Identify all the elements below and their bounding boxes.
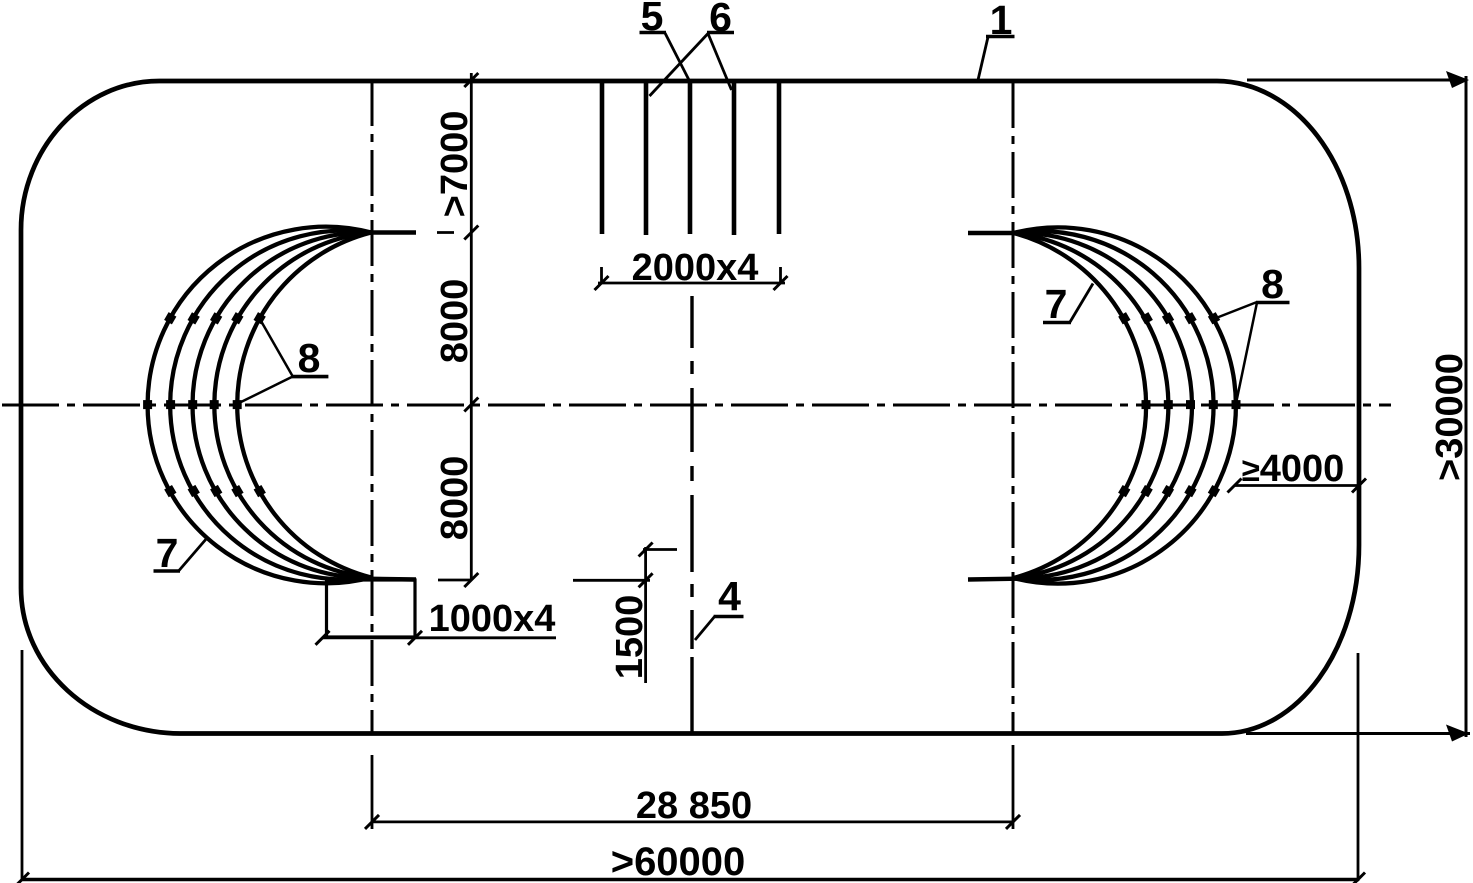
svg-text:7: 7: [1045, 281, 1068, 327]
svg-text:1500: 1500: [609, 595, 651, 680]
right flight circle arcs 7 (five concentric hemicycle arcs): [1014, 227, 1236, 583]
arc R1 outer: [1014, 227, 1236, 583]
arc L5 inner: [237, 233, 371, 578]
svg-text:8: 8: [1261, 261, 1284, 307]
left arcs top extension dash: [437, 231, 454, 234]
svg-text:>60000: >60000: [611, 840, 746, 883]
dimension >60000 (overall length): [15, 650, 1365, 883]
left flight circle arcs 7 (five concentric hemicycle arcs): [148, 227, 371, 584]
starting square box (bottom left pad): [327, 580, 416, 637]
arrow terminator top of >30000: [1446, 71, 1469, 88]
svg-text:>30000: >30000: [1429, 353, 1471, 481]
right arcs bottom merge line: [968, 579, 1032, 580]
arc L2: [170, 231, 371, 580]
dimension 1000x4: [322, 636, 556, 639]
marker dots 8 on right arcs (centerline row): [1142, 400, 1241, 409]
post line 5: [777, 81, 782, 234]
marker dots 8 on left arcs (centerline row): [143, 400, 242, 409]
arc R5 inner: [1014, 233, 1147, 578]
dimension 1500: [573, 543, 677, 684]
leader from label 1 to boundary: [978, 37, 988, 80]
arc R3: [1014, 233, 1192, 578]
field boundary 1 (rounded safety border outline): [21, 81, 1359, 734]
left arcs bottom merge line: [350, 579, 416, 580]
leader from label 8 left to centerline dot: [241, 377, 293, 402]
arrow terminator bottom of >30000: [1446, 725, 1469, 742]
dimension column >7000 / 8000 / 8000: [438, 73, 478, 587]
svg-text:4: 4: [718, 573, 741, 619]
right flight-circle axis (vertical dash-dot): [1012, 82, 1015, 733]
marker dots 8 on right arcs (lower row): [1118, 485, 1220, 497]
arc R4: [1014, 233, 1169, 578]
dimension >30000 (right side vertical): [1246, 76, 1470, 737]
leader from label 4 to axis: [695, 617, 715, 641]
arc R2: [1014, 231, 1214, 580]
marker dots 8 on left arcs (lower row): [164, 485, 266, 497]
leader from label 8 left to upper dot: [261, 321, 293, 376]
leader from label 5 to post 3: [665, 33, 690, 81]
arc L1 outer: [148, 227, 371, 584]
central axis 4 (vertical dash-dot): [690, 296, 693, 733]
leader from label 8 right to upper dot: [1211, 302, 1257, 320]
svg-text:28 850: 28 850: [636, 785, 752, 827]
svg-text:2000x4: 2000x4: [632, 247, 759, 289]
svg-text:8000: 8000: [434, 279, 476, 364]
left flight-circle axis (vertical dash-dot): [371, 80, 374, 733]
post 5/6 group: post line 1: [600, 81, 605, 234]
marker dots 8 on left arcs (upper row): [164, 312, 266, 324]
svg-text:≥4000: ≥4000: [1242, 448, 1345, 490]
post line 3: [688, 81, 693, 234]
leader from label 8 right to centerline dot: [1237, 303, 1258, 402]
left arcs top merge line: [352, 230, 416, 234]
svg-text:8: 8: [298, 335, 321, 381]
right arcs top merge line: [968, 231, 1032, 235]
post line 2: [644, 81, 649, 235]
post line 4: [732, 81, 737, 235]
dimension 28 850 (between circle axes): [365, 745, 1020, 829]
svg-text:>7000: >7000: [434, 111, 476, 218]
arc L3: [193, 232, 371, 577]
leader from label 6 to post 2: [650, 34, 709, 97]
svg-text:8000: 8000: [434, 456, 476, 541]
svg-text:1000x4: 1000x4: [429, 598, 556, 640]
marker dots 8 on right arcs (upper row): [1118, 312, 1220, 324]
svg-text:7: 7: [156, 530, 179, 576]
dimension >=4000 (arc to boundary): [1234, 484, 1359, 487]
arc L4: [214, 233, 371, 578]
dimension 2000x4 (posts spacing): [595, 267, 788, 290]
leader from label 6 to post 4: [708, 34, 732, 91]
leader from label 7 left to outer arc: [179, 538, 207, 571]
horizontal centerline (dash-dot axis): [2, 404, 1391, 407]
leader from label 7 right to outer arc: [1070, 284, 1093, 323]
